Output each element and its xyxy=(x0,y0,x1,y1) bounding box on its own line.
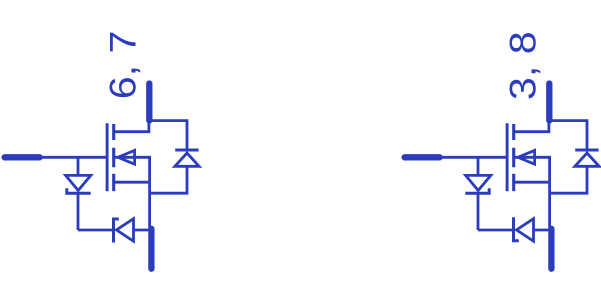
svg-text:3, 8: 3, 8 xyxy=(502,31,544,100)
svg-text:6, 7: 6, 7 xyxy=(102,31,144,100)
